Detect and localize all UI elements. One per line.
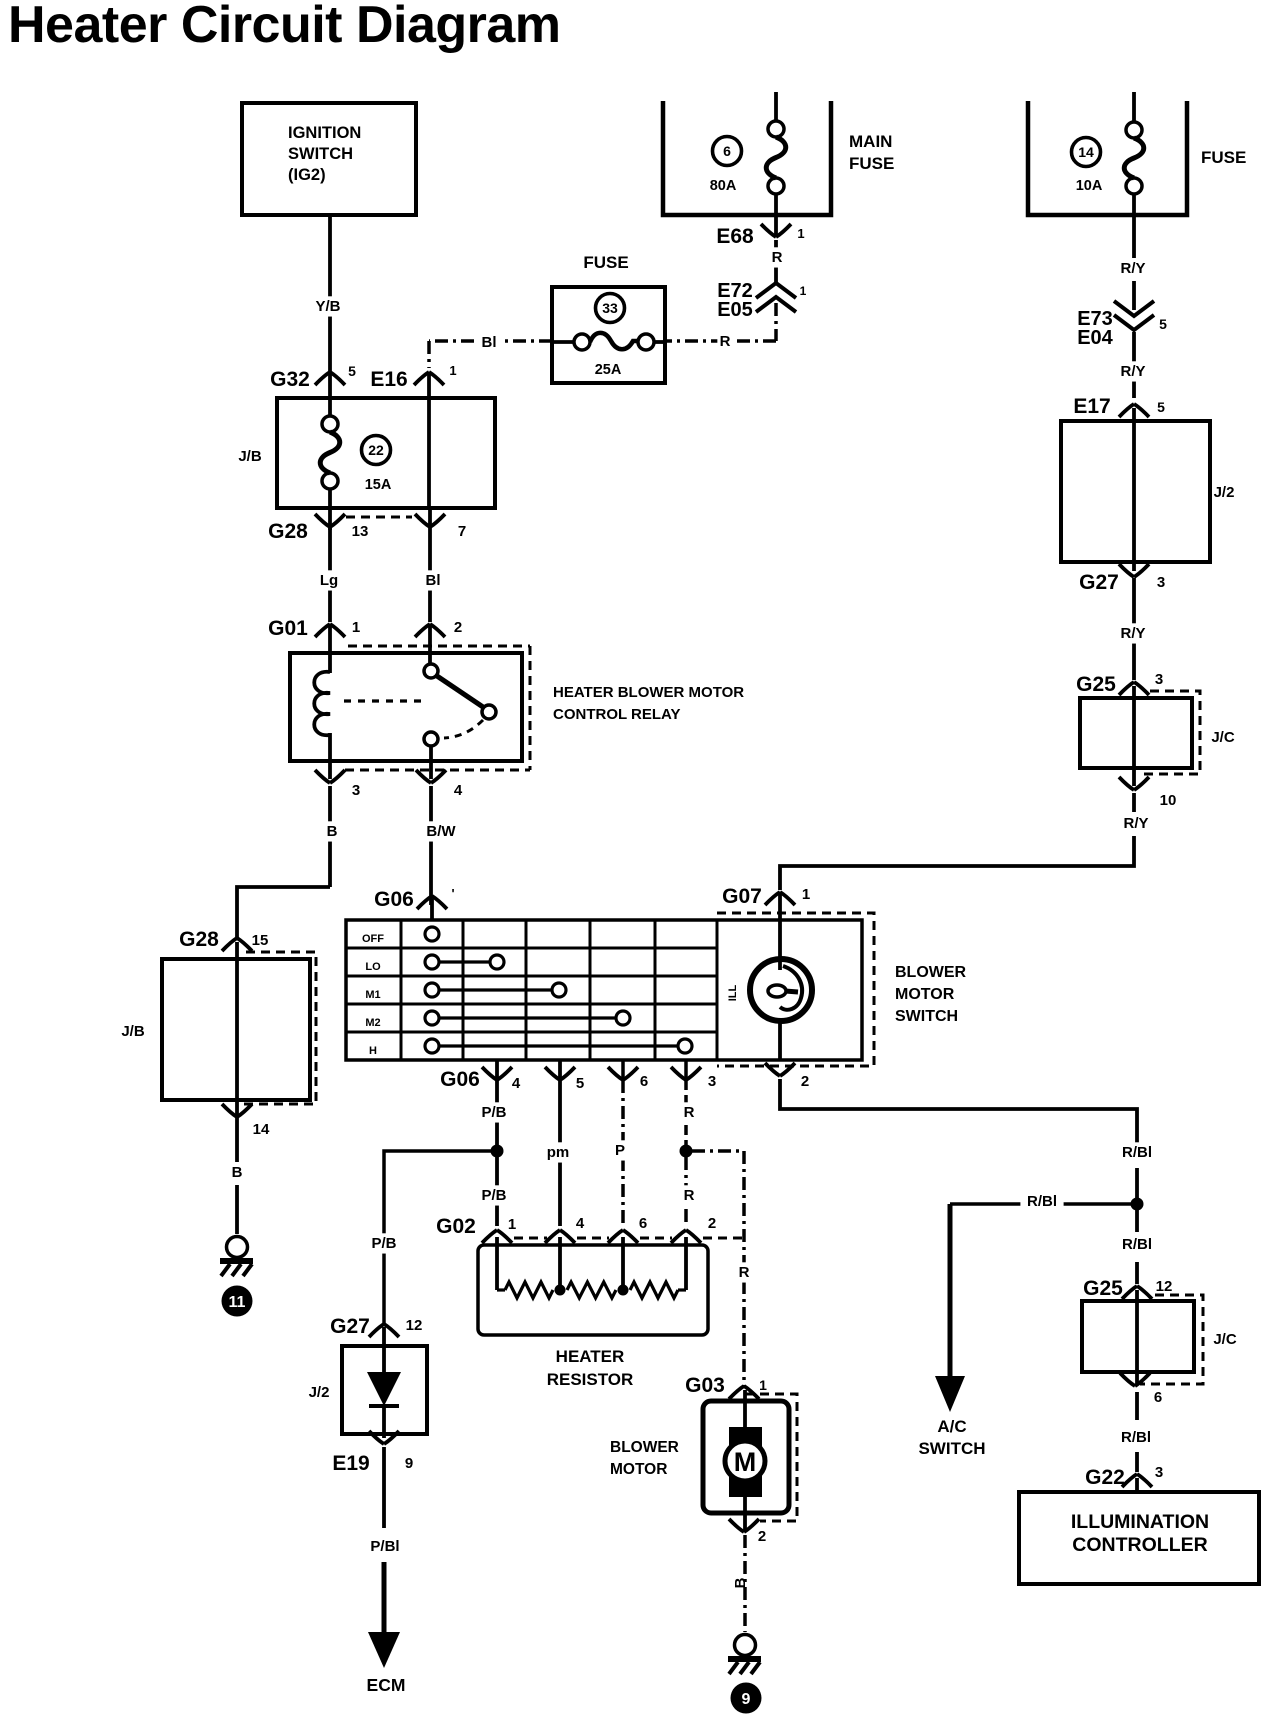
junction block J/B with fuse 22 bbox=[277, 398, 495, 508]
wire label Y/B bbox=[311, 296, 345, 316]
wire R pin3 bbox=[684, 1060, 688, 1080]
svg-text:1: 1 bbox=[759, 1377, 767, 1393]
svg-text:1: 1 bbox=[352, 619, 360, 636]
junction connector J/C dashed outline bbox=[1140, 691, 1200, 774]
svg-text:Lg: Lg bbox=[320, 572, 338, 589]
svg-text:E16: E16 bbox=[370, 368, 407, 391]
wire through J/C lower bbox=[1135, 1290, 1139, 1385]
wire R/Y to switch bbox=[1132, 793, 1136, 812]
svg-text:Heater Circuit Diagram: Heater Circuit Diagram bbox=[8, 0, 561, 54]
svg-text:P: P bbox=[615, 1142, 625, 1159]
wire B from relay bbox=[328, 786, 332, 887]
svg-text:25A: 25A bbox=[595, 362, 622, 378]
svg-text:P/B: P/B bbox=[371, 1235, 396, 1252]
blower motor box bbox=[703, 1401, 789, 1513]
svg-text:2: 2 bbox=[454, 619, 462, 636]
svg-text:3: 3 bbox=[352, 782, 360, 799]
illumination controller box bbox=[1019, 1492, 1259, 1584]
connector pin 6 bbox=[1120, 1373, 1150, 1386]
wire switch to R/Bl column bbox=[780, 1079, 1137, 1150]
svg-text:MAIN: MAIN bbox=[849, 132, 892, 151]
svg-text:14: 14 bbox=[1078, 144, 1094, 160]
svg-text:G03: G03 bbox=[685, 1374, 725, 1397]
svg-text:SWITCH: SWITCH bbox=[895, 1008, 958, 1025]
svg-text:B: B bbox=[327, 823, 338, 840]
svg-text:E17: E17 bbox=[1073, 395, 1110, 418]
relay contact NC dashed bbox=[444, 720, 483, 738]
blower motor switch body bbox=[346, 920, 862, 1060]
svg-text:3: 3 bbox=[1157, 574, 1165, 591]
svg-text:G01: G01 bbox=[268, 617, 308, 640]
svg-text:J/2: J/2 bbox=[1214, 484, 1235, 501]
svg-text:G28: G28 bbox=[268, 520, 308, 543]
svg-text:ECM: ECM bbox=[367, 1675, 406, 1695]
svg-text:J/C: J/C bbox=[1213, 1331, 1237, 1348]
junction connector J/C lower dashed outline bbox=[1140, 1295, 1203, 1384]
svg-text:HEATER BLOWER MOTOR: HEATER BLOWER MOTOR bbox=[553, 684, 744, 701]
wire P/B pin4 bbox=[495, 1060, 499, 1146]
wire R/Bl to A/C switch bbox=[950, 1202, 1131, 1206]
svg-text:9: 9 bbox=[742, 1691, 751, 1708]
A/C switch arrow bbox=[935, 1376, 965, 1412]
svg-text:Y/B: Y/B bbox=[315, 298, 340, 315]
ground left bbox=[227, 1237, 248, 1258]
fuse 14 10A element bbox=[1132, 92, 1136, 122]
svg-text:RESISTOR: RESISTOR bbox=[547, 1370, 634, 1389]
svg-text:FUSE: FUSE bbox=[849, 154, 894, 173]
svg-text:pm: pm bbox=[547, 1144, 570, 1161]
svg-text:7: 7 bbox=[458, 523, 466, 540]
svg-text:G28: G28 bbox=[179, 928, 219, 951]
connector pin 2 below motor bbox=[729, 1519, 759, 1532]
svg-text:1: 1 bbox=[800, 284, 807, 298]
svg-text:G06: G06 bbox=[374, 888, 414, 911]
wire R to G02 dash-dot bbox=[684, 1157, 688, 1226]
svg-text:R/Bl: R/Bl bbox=[1122, 1144, 1152, 1161]
svg-text:R/Y: R/Y bbox=[1120, 260, 1145, 277]
main fuse 6 80A element bbox=[774, 92, 778, 121]
svg-text:SWITCH: SWITCH bbox=[288, 145, 353, 163]
svg-text:G25: G25 bbox=[1083, 1277, 1123, 1300]
svg-text:22: 22 bbox=[368, 442, 384, 458]
blower motor dashed outline bbox=[745, 1394, 797, 1521]
svg-text:4: 4 bbox=[454, 782, 463, 799]
svg-text:M1: M1 bbox=[365, 989, 380, 1001]
svg-text:R: R bbox=[684, 1187, 695, 1204]
fuse 33 25A element bbox=[552, 340, 574, 344]
svg-text:G25: G25 bbox=[1076, 673, 1116, 696]
relay contact arm bbox=[437, 676, 483, 707]
svg-text:J/C: J/C bbox=[1211, 729, 1235, 746]
svg-text:J/2: J/2 bbox=[309, 1384, 330, 1401]
junction node P/B bbox=[491, 1145, 504, 1158]
svg-text:G27: G27 bbox=[1079, 571, 1119, 594]
relay coil bbox=[328, 624, 332, 673]
svg-text:2: 2 bbox=[801, 1073, 809, 1090]
connector pin 14 bbox=[222, 1104, 252, 1117]
svg-text:CONTROLLER: CONTROLLER bbox=[1072, 1534, 1207, 1556]
svg-text:10: 10 bbox=[1160, 792, 1177, 809]
fuse 22 15A element bbox=[328, 372, 332, 417]
svg-text:M: M bbox=[734, 1447, 757, 1477]
svg-text:12: 12 bbox=[406, 1317, 423, 1334]
svg-text:SWITCH: SWITCH bbox=[918, 1439, 985, 1458]
wire pm pin5 bbox=[558, 1060, 562, 1226]
svg-text:IGNITION: IGNITION bbox=[288, 124, 361, 142]
wire Lg bbox=[328, 527, 332, 622]
svg-text:R/Y: R/Y bbox=[1120, 363, 1145, 380]
wire dash-dot to corner bbox=[774, 303, 778, 341]
svg-text:MOTOR: MOTOR bbox=[895, 986, 955, 1003]
svg-text:J/B: J/B bbox=[238, 448, 262, 465]
svg-text:12: 12 bbox=[1156, 1278, 1173, 1295]
svg-text:11: 11 bbox=[229, 1294, 246, 1311]
wire Bl dash-dot to E16 bbox=[429, 339, 552, 343]
svg-text:HEATER: HEATER bbox=[556, 1347, 625, 1366]
svg-text:BLOWER: BLOWER bbox=[895, 964, 967, 981]
svg-text:R/Bl: R/Bl bbox=[1122, 1236, 1152, 1253]
switch H contact bbox=[439, 1044, 678, 1047]
svg-text:1: 1 bbox=[797, 226, 804, 241]
wire through J/B right side bbox=[427, 372, 431, 508]
svg-text:E19: E19 bbox=[332, 1452, 369, 1475]
svg-text:6: 6 bbox=[640, 1073, 648, 1090]
ground right bbox=[735, 1635, 756, 1656]
heater blower motor control relay dashed outline bbox=[348, 645, 530, 648]
svg-text:13: 13 bbox=[352, 523, 369, 540]
svg-text:FUSE: FUSE bbox=[583, 253, 628, 272]
svg-text:6: 6 bbox=[723, 143, 731, 159]
svg-text:1: 1 bbox=[802, 886, 810, 903]
ECM arrow bbox=[368, 1632, 400, 1668]
relay box bbox=[290, 653, 522, 761]
svg-text:MOTOR: MOTOR bbox=[610, 1461, 667, 1478]
svg-text:J/B: J/B bbox=[121, 1023, 145, 1040]
J/B dashed outline bbox=[240, 952, 316, 1104]
svg-text:G27: G27 bbox=[330, 1315, 370, 1338]
svg-text:A/C: A/C bbox=[937, 1417, 966, 1436]
svg-text:LO: LO bbox=[365, 961, 381, 973]
junction node R/Bl bbox=[1131, 1198, 1144, 1211]
svg-text:G07: G07 bbox=[722, 885, 762, 908]
wire R bbox=[774, 240, 778, 283]
svg-text:R/Bl: R/Bl bbox=[1121, 1429, 1151, 1446]
svg-text:G06: G06 bbox=[440, 1068, 480, 1091]
svg-text:4: 4 bbox=[512, 1075, 521, 1092]
heater resistor elements bbox=[497, 1288, 505, 1291]
wire R/Bl down bbox=[1135, 1210, 1139, 1232]
main fuse box bbox=[663, 101, 831, 215]
svg-text:G32: G32 bbox=[270, 368, 310, 391]
svg-text:9: 9 bbox=[405, 1455, 413, 1472]
svg-text:5: 5 bbox=[576, 1075, 584, 1092]
wire B/W into switch bbox=[430, 899, 434, 920]
relay link dashed bbox=[344, 699, 424, 702]
connector pin 2 below switch bbox=[765, 1063, 795, 1076]
svg-text:Bl: Bl bbox=[482, 334, 497, 351]
svg-text:4: 4 bbox=[576, 1215, 585, 1232]
ignition switch box bbox=[242, 103, 416, 215]
relay contact common bbox=[424, 664, 438, 678]
connector dashed link G28 bbox=[346, 516, 412, 519]
svg-text:M2: M2 bbox=[365, 1017, 380, 1029]
ground ref 11 bbox=[222, 1286, 253, 1317]
svg-text:B/W: B/W bbox=[426, 823, 456, 840]
wire P pin6 dash-dot bbox=[621, 1060, 625, 1080]
wire through J/B bbox=[235, 942, 239, 1100]
svg-text:3: 3 bbox=[1155, 1464, 1163, 1481]
switch LO contact bbox=[439, 960, 490, 963]
connector pin 10 bbox=[1119, 777, 1149, 790]
wire ignition to G32 bbox=[328, 215, 332, 372]
wire R/Bl to G22 bbox=[1135, 1392, 1139, 1420]
wire B/W from relay bbox=[429, 786, 433, 905]
connector pin 7 bbox=[415, 514, 445, 527]
svg-text:E68: E68 bbox=[716, 225, 754, 248]
switch contacts column bbox=[425, 927, 439, 941]
connector pins 3 4 below relay bbox=[315, 770, 345, 783]
svg-text:R: R bbox=[720, 333, 731, 350]
svg-text:3: 3 bbox=[708, 1073, 716, 1090]
junction block J/2 right bbox=[1061, 421, 1210, 562]
switch grid rows bbox=[346, 947, 717, 950]
svg-text:G22: G22 bbox=[1085, 1466, 1125, 1489]
blower motor symbol M bbox=[743, 1390, 747, 1432]
connector E19 pin 9 bbox=[369, 1431, 399, 1444]
wire P/B to G02 bbox=[495, 1157, 499, 1226]
wire Bl bbox=[428, 508, 432, 622]
svg-text:G02: G02 bbox=[436, 1215, 476, 1238]
fuse 22 label bbox=[362, 436, 391, 465]
ground ref 9 bbox=[731, 1683, 762, 1714]
svg-text:R: R bbox=[772, 249, 783, 266]
wire B to ground bbox=[235, 1100, 239, 1162]
svg-text:14: 14 bbox=[253, 1121, 270, 1138]
wire P/Bl to ECM bbox=[382, 1447, 386, 1528]
svg-text:ILLUMINATION: ILLUMINATION bbox=[1071, 1511, 1209, 1533]
svg-text:OFF: OFF bbox=[362, 933, 384, 945]
junction connector J/C box bbox=[1080, 698, 1192, 768]
svg-text:ILL: ILL bbox=[727, 984, 739, 1001]
wire R branch to blower motor dash-dot bbox=[692, 1149, 744, 1153]
heater resistor pins bbox=[495, 1237, 499, 1290]
svg-text:H: H bbox=[369, 1045, 377, 1057]
svg-text:80A: 80A bbox=[710, 178, 737, 194]
svg-text:6: 6 bbox=[639, 1215, 647, 1232]
switch grid verticals bbox=[400, 920, 403, 1060]
junction connector J/C lower box bbox=[1082, 1301, 1194, 1372]
diode element bbox=[382, 1327, 386, 1374]
junction block J/B lower left bbox=[162, 959, 310, 1100]
fuse box right bbox=[1028, 101, 1187, 215]
svg-text:15A: 15A bbox=[365, 477, 392, 493]
junction node R bbox=[680, 1145, 693, 1158]
svg-text:P/B: P/B bbox=[481, 1104, 506, 1121]
svg-text:E04: E04 bbox=[1077, 327, 1113, 349]
svg-text:R: R bbox=[739, 1264, 750, 1281]
svg-text:10A: 10A bbox=[1076, 178, 1103, 194]
svg-text:Bl: Bl bbox=[426, 572, 441, 589]
wire B to ground dash-dot bbox=[743, 1535, 747, 1632]
svg-text:5: 5 bbox=[348, 363, 356, 379]
wire R/Y bbox=[1116, 258, 1150, 278]
svg-text:B: B bbox=[232, 1164, 243, 1181]
blower motor switch dashed outline bbox=[717, 913, 874, 1066]
svg-text:3: 3 bbox=[1155, 671, 1163, 688]
svg-text:R/Y: R/Y bbox=[1123, 815, 1148, 832]
switch M2 contact bbox=[439, 1016, 616, 1019]
wire R/Y 2 bbox=[1132, 332, 1136, 398]
svg-text:': ' bbox=[451, 886, 454, 901]
svg-text:E05: E05 bbox=[717, 299, 753, 321]
svg-text:B: B bbox=[732, 1577, 749, 1588]
svg-text:P/B: P/B bbox=[481, 1187, 506, 1204]
wire through J/2 bbox=[1132, 408, 1136, 571]
svg-text:R: R bbox=[684, 1104, 695, 1121]
svg-text:33: 33 bbox=[602, 300, 618, 316]
wire through J/C bbox=[1132, 686, 1136, 786]
connector G02 dashed link bbox=[514, 1237, 547, 1240]
wire B jog left bbox=[237, 887, 330, 938]
svg-text:1: 1 bbox=[508, 1216, 516, 1233]
wire P/B branch to diode bbox=[384, 1151, 491, 1324]
diode box J/2 bbox=[342, 1346, 427, 1434]
wire R/Y 3 bbox=[1132, 578, 1136, 680]
svg-text:2: 2 bbox=[708, 1215, 716, 1232]
svg-text:BLOWER: BLOWER bbox=[610, 1439, 679, 1456]
svg-text:R/Bl: R/Bl bbox=[1027, 1193, 1057, 1210]
svg-text:(IG2): (IG2) bbox=[288, 166, 326, 184]
svg-text:2: 2 bbox=[758, 1528, 766, 1545]
svg-text:5: 5 bbox=[1159, 316, 1167, 332]
svg-text:1: 1 bbox=[449, 363, 456, 378]
svg-text:R/Y: R/Y bbox=[1120, 625, 1145, 642]
heater resistor box bbox=[478, 1245, 708, 1335]
svg-text:6: 6 bbox=[1154, 1389, 1162, 1406]
svg-text:FUSE: FUSE bbox=[1201, 148, 1246, 167]
svg-text:P/Bl: P/Bl bbox=[370, 1538, 399, 1555]
svg-text:5: 5 bbox=[1157, 399, 1165, 415]
svg-text:CONTROL RELAY: CONTROL RELAY bbox=[553, 706, 681, 723]
svg-text:15: 15 bbox=[252, 932, 269, 949]
switch M1 contact bbox=[439, 988, 552, 991]
